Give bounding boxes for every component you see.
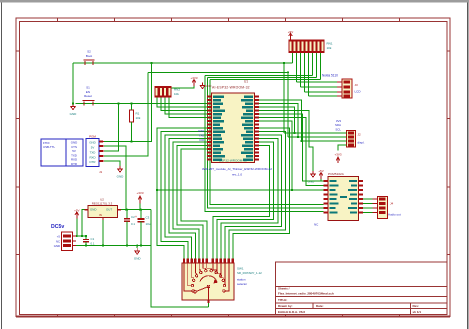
- svg-text:J2: J2: [358, 132, 362, 136]
- wire X1 to regulator in: [82, 210, 88, 236]
- window chrome right edge: [467, 3, 468, 329]
- wire wrap INT to DAC: [210, 80, 324, 205]
- wire RN1 pin4 to LCD3: [304, 53, 306, 92]
- connector J1 body: [86, 139, 99, 167]
- junction C1 bottom: [85, 244, 87, 246]
- wire LCD row3: [305, 91, 338, 93]
- svg-text:S2: S2: [87, 50, 91, 54]
- regulator U2 pins: [85, 210, 122, 220]
- wire J1 pin5 to gnd: [104, 161, 120, 166]
- switch S2 label: [86, 50, 92, 59]
- module U3 pin labels: [330, 180, 358, 214]
- wire RN2 pin4 to MCU: [169, 97, 212, 117]
- wire RN2 common to +3V3: [172, 86, 195, 88]
- wire net SCL wrap top: [205, 75, 313, 77]
- svg-text:RN1: RN1: [327, 41, 333, 45]
- svg-text:Rev:: Rev:: [413, 304, 420, 308]
- wire U1 left to rotary position 9: [161, 132, 212, 259]
- junction C2 bottom: [126, 244, 128, 246]
- junction C3 top: [140, 209, 142, 211]
- svg-text:ESP32-WROOM-32: ESP32-WROOM-32: [219, 158, 247, 162]
- junction R1 top: [130, 102, 132, 104]
- wire U1 pin drop to rail: [259, 121, 293, 190]
- wire U1 pin feed b: [259, 104, 299, 138]
- svg-text:NC: NC: [56, 239, 60, 243]
- junction feed b: [297, 136, 299, 138]
- ground symbol power rail: [134, 248, 142, 261]
- wire U1 to rotary switch position 1: [233, 128, 290, 259]
- supply +3V3 symbol at U2: [136, 191, 143, 204]
- wire rotary common up: [208, 303, 210, 307]
- wire net I2C SCL row: [288, 136, 347, 138]
- svg-text:EAGLE E.D.A. V6.6: EAGLE E.D.A. V6.6: [278, 310, 305, 314]
- wire U1 pin feed a: [259, 100, 302, 141]
- module U1 footer text: [219, 158, 247, 162]
- svg-text:GND: GND: [134, 257, 142, 261]
- svg-text:10k: 10k: [174, 92, 179, 96]
- svg-text:R1: R1: [136, 112, 140, 116]
- svg-text:J3: J3: [355, 83, 359, 87]
- svg-text:GND: GND: [90, 208, 96, 212]
- svg-text:+5: +5: [57, 234, 61, 238]
- connector J3 LCD: [337, 79, 352, 98]
- svg-text:Sheets /: Sheets /: [278, 287, 290, 291]
- svg-text:SCL: SCL: [335, 127, 341, 131]
- svg-text:Nokia 5110: Nokia 5110: [322, 74, 338, 78]
- svg-text:DTR: DTR: [90, 160, 96, 164]
- module U3 body: [328, 177, 359, 221]
- svg-text:selector: selector: [237, 282, 247, 286]
- connector J1 refdes: [99, 170, 103, 174]
- capacitor C2: [124, 210, 130, 246]
- svg-text:OUT: OUT: [106, 208, 112, 212]
- wire R1 top stub: [131, 104, 133, 111]
- svg-text:displ.: displ.: [358, 140, 365, 144]
- wire RN1 pin2 to LCD1: [296, 53, 298, 82]
- svg-text:RXD: RXD: [89, 155, 95, 159]
- capacitor C3 label: [146, 215, 151, 226]
- wire U3 to J4 line 2: [363, 203, 373, 205]
- junction 3v3 rail: [139, 209, 141, 211]
- wire LCD row1: [297, 81, 338, 83]
- svg-text:rev_1.0: rev_1.0: [232, 173, 243, 177]
- junction +5V X1: [76, 235, 78, 237]
- regulator U2 body: [88, 206, 118, 218]
- svg-text:GND: GND: [206, 84, 212, 88]
- svg-text:J4: J4: [390, 202, 394, 206]
- resistor network RN2 label: [174, 88, 180, 96]
- junction J1 pin3: [118, 102, 120, 104]
- svg-text:C3: C3: [146, 215, 150, 219]
- ground symbol at U1 top: [200, 83, 211, 89]
- svg-text:REG1117SL 3.3: REG1117SL 3.3: [92, 201, 113, 205]
- svg-text:Reset: Reset: [84, 94, 92, 98]
- svg-text:+3V3: +3V3: [334, 152, 341, 156]
- wire U1 left to rotary position 12: [173, 142, 212, 259]
- module U1 body: [212, 93, 255, 163]
- svg-text:GND: GND: [54, 244, 60, 248]
- wire U1 left to rotary position 8: [157, 128, 212, 259]
- wire rail to rotary common: [151, 210, 209, 307]
- switch SW1 body: [182, 263, 234, 300]
- svg-text:3V3: 3V3: [336, 119, 342, 123]
- connector J4 audio: [373, 197, 388, 219]
- wire wrap SCL to DAC: [205, 76, 324, 212]
- wire +5V drop: [76, 219, 78, 237]
- svg-text:GND: GND: [89, 141, 95, 145]
- label DC5v: [51, 224, 64, 230]
- switch SW1 pins: [183, 259, 234, 263]
- svg-text:PCM5102A: PCM5102A: [328, 172, 345, 176]
- junction U2 gnd: [102, 244, 104, 246]
- svg-text:LCD: LCD: [355, 90, 362, 94]
- switch SW1 internals: [184, 263, 229, 303]
- junction C2 top: [126, 209, 128, 211]
- capacitor C1 label: [91, 237, 95, 246]
- wire J1 pin2 down: [104, 146, 126, 210]
- wire X1 pin1 rail: [76, 235, 86, 237]
- supply +3V3 symbol at J2: [334, 152, 341, 163]
- wire U1 pin feed d to GND: [259, 111, 314, 172]
- connector J2 I2C: [342, 131, 356, 148]
- wire wrap SDA to DAC: [208, 78, 324, 209]
- module U1 pin labels: [213, 95, 253, 161]
- svg-text:U1: U1: [244, 80, 248, 84]
- svg-text:SW1: SW1: [237, 267, 244, 271]
- junction reg in: [81, 235, 83, 237]
- supply +3V3 symbol near RN2: [190, 76, 197, 86]
- svg-text:TX0: TX0: [199, 133, 205, 137]
- connector J1 PGM label: [89, 135, 96, 139]
- wire J1 pin1 to BOOT: [104, 63, 152, 142]
- svg-text:J1: J1: [99, 170, 103, 174]
- module U3 center label: [340, 196, 347, 198]
- junction I2C INT row: [300, 140, 302, 142]
- wire RN1 pin7 to SDA: [316, 53, 318, 78]
- junction J1 boot: [150, 62, 152, 64]
- module U1 name: [212, 80, 250, 90]
- svg-text:USB-TTL: USB-TTL: [43, 145, 55, 149]
- wire RN1 pin3 to LCD2: [300, 53, 302, 87]
- junction S1 gnd: [72, 102, 74, 104]
- svg-text:GND: GND: [70, 112, 78, 116]
- junction gnd stub: [136, 244, 138, 246]
- wire RN2 pin1 to MCU: [157, 97, 212, 107]
- window chrome left edge: [1, 3, 2, 329]
- wire +3V3 stub: [139, 204, 141, 210]
- resistor network RN1 label: [327, 41, 333, 49]
- wire U1 to DAC data: [259, 114, 324, 181]
- svg-text:Boot: Boot: [86, 54, 92, 58]
- wire U2 out rail: [121, 209, 151, 211]
- svg-text:sh 1/1: sh 1/1: [413, 310, 422, 314]
- wire U2 gnd down: [102, 220, 104, 246]
- module USB-TTL pin names: [71, 141, 77, 167]
- window chrome top bar: [0, 0, 469, 3]
- module USB-TTL label: [43, 141, 55, 149]
- wire net SDA wrap top: [208, 77, 317, 79]
- svg-text:TITLE:: TITLE:: [278, 298, 287, 302]
- svg-text:DTR: DTR: [71, 162, 77, 166]
- ground symbol right of U1: [308, 171, 316, 184]
- wire RN1 pin8 to INT: [320, 53, 322, 80]
- wire net EN to MCU: [75, 103, 211, 105]
- junction BOOT drop: [283, 62, 285, 64]
- ground symbol near S1: [70, 104, 78, 116]
- svg-text:station: station: [237, 277, 246, 281]
- svg-text:WiFi+BT_module_AI_Thinker_ESP3: WiFi+BT_module_AI_Thinker_ESP32-WROOM-32: [202, 167, 272, 171]
- module U1 description: [202, 167, 272, 177]
- switch SW1 value: [237, 277, 247, 286]
- svg-text:IO0: IO0: [199, 138, 204, 142]
- title block sheet text: [278, 287, 334, 296]
- label net RX0 TX0 IO0: [198, 129, 204, 142]
- wire U1 left to rotary position 11: [169, 139, 212, 259]
- ground symbol at J1: [117, 166, 125, 179]
- svg-text:DC5v: DC5v: [51, 224, 64, 230]
- wire U1 to rotary switch position 6: [213, 146, 270, 259]
- connector X1 pin labels: [54, 234, 61, 248]
- wire BOOT drop to I2C: [283, 63, 285, 133]
- wire U1 to DAC bck: [259, 118, 324, 186]
- wire X1 gnd rail: [76, 245, 151, 247]
- connector X1 DC input: [62, 232, 77, 251]
- capacitor C1: [83, 236, 89, 246]
- svg-text:+3V3: +3V3: [136, 191, 143, 195]
- svg-text:Drawn by:: Drawn by:: [278, 304, 293, 308]
- junction feed c: [293, 132, 295, 134]
- svg-text:10k: 10k: [136, 116, 141, 120]
- connector J1 pins: [99, 140, 104, 162]
- svg-text:10u: 10u: [146, 222, 151, 226]
- capacitor C3: [135, 210, 145, 246]
- switch S2 boot button: [84, 60, 95, 65]
- wire net I2C INT row: [302, 140, 347, 142]
- svg-text:5V: 5V: [91, 146, 95, 150]
- wire net IO0 rail: [148, 71, 288, 73]
- title block frame: [276, 262, 448, 315]
- regulator U2 pin names: [90, 208, 112, 217]
- wire J1 pin3 up: [104, 104, 119, 152]
- svg-text:SR_ROTARY_1-12: SR_ROTARY_1-12: [237, 271, 262, 275]
- junction IO0 drop: [287, 71, 289, 73]
- wire IO0 drop to I2C: [287, 72, 289, 137]
- svg-text:10k: 10k: [327, 46, 332, 50]
- supply +5V symbol at U3: [318, 169, 323, 179]
- svg-text:0.1: 0.1: [91, 241, 95, 245]
- connector J3 label: [355, 83, 362, 94]
- wire U1 left to rotary position 14: [181, 149, 212, 259]
- svg-text:TXD: TXD: [90, 150, 96, 154]
- label Nokia display: [322, 74, 338, 78]
- wire net INT wrap top: [210, 79, 321, 81]
- connector J1 pin names: [89, 141, 95, 165]
- svg-text:Date:: Date:: [316, 304, 324, 308]
- junction long rail left: [156, 189, 158, 191]
- wire U1 to rotary switch position 3: [225, 135, 282, 259]
- wire J1 pin4 to IO0: [104, 72, 148, 156]
- label NC at U3: [314, 223, 319, 227]
- svg-text:PGM: PGM: [89, 135, 96, 139]
- wire U1 pin feed c: [259, 107, 295, 133]
- wire net BOOT top rail: [73, 62, 293, 64]
- supply +5V symbol above RN1: [288, 30, 293, 40]
- resistor network RN1: [289, 40, 325, 53]
- regulator U2 name: [92, 197, 113, 205]
- wire RN1 pin1 to BOOT rail: [292, 53, 294, 63]
- wire U3 to J4 line 3: [363, 207, 373, 209]
- wire RN2 pin3 to MCU: [165, 97, 212, 114]
- wire U3 to J4 line 1: [363, 198, 373, 200]
- module U1 pins: [207, 95, 259, 160]
- wire U3 to J4 line 4: [363, 212, 373, 214]
- wire +5V to U3 pin1: [321, 179, 324, 181]
- wire U1 to rotary switch position 5: [217, 142, 274, 259]
- junction C1 top: [85, 235, 87, 237]
- resistor R1 body: [130, 110, 141, 122]
- wire RN1 pin5 to LCD4: [308, 53, 310, 96]
- wire RN2 pin2 to MCU: [161, 97, 212, 110]
- wire LCD row4: [309, 95, 338, 97]
- svg-text:Audio out: Audio out: [388, 212, 401, 216]
- wire U1 to rotary switch position 4: [221, 139, 278, 259]
- label I2C pins: [335, 119, 341, 132]
- svg-text:Flea_Internet_radio_28049703/f: Flea_Internet_radio_28049703/final.sch: [278, 292, 334, 296]
- wire U1 left to rotary position 13: [177, 146, 212, 259]
- supply +5V symbol at X1: [74, 209, 79, 219]
- wire gnd stub: [136, 246, 138, 249]
- title block TITLE text: [278, 298, 287, 302]
- junction C3 bottom: [140, 244, 142, 246]
- svg-text:GND: GND: [117, 175, 125, 179]
- connector J4 label: [390, 202, 394, 206]
- switch S1 label: [84, 86, 92, 98]
- module USB-TTL body: [41, 139, 83, 166]
- wire U1 to rotary switch position 2: [229, 132, 286, 259]
- capacitor C2 label: [131, 215, 135, 226]
- wire long rail under U1: [157, 189, 324, 191]
- junction J1 pin2 rail: [125, 209, 127, 211]
- wire net I2C SDA row: [284, 132, 347, 134]
- svg-text:C1: C1: [91, 237, 95, 241]
- wire RN1 pin6 to SCL: [312, 53, 314, 76]
- junction R1 bottom: [130, 140, 132, 142]
- resistor network RN2: [155, 86, 172, 97]
- switch SW1 label: [237, 267, 262, 276]
- wire R1 bottom stub: [131, 122, 133, 142]
- title block drawn-by row: [278, 304, 419, 308]
- svg-text:AI-ESP32-WROOM-32: AI-ESP32-WROOM-32: [212, 85, 250, 89]
- wire J2 pin4 to +3V3: [338, 145, 347, 151]
- frame bottom emphasis: [16, 316, 450, 318]
- connector J2 label: [358, 132, 365, 144]
- svg-text:RX0: RX0: [198, 129, 204, 133]
- svg-text:0.1: 0.1: [131, 222, 135, 226]
- module U3 pins: [324, 180, 363, 214]
- module U3 name: [328, 172, 345, 176]
- title block eagle row: [278, 310, 421, 314]
- svg-text:+: +: [135, 215, 137, 219]
- svg-text:IN: IN: [99, 213, 102, 217]
- wire left vertical between buttons: [72, 63, 74, 104]
- junction rail drop: [291, 189, 293, 191]
- switch S1 reset button: [83, 100, 95, 105]
- label audio out: [388, 212, 401, 216]
- wire U1 left to rotary position 10: [165, 135, 212, 259]
- wire LCD row2: [301, 86, 338, 88]
